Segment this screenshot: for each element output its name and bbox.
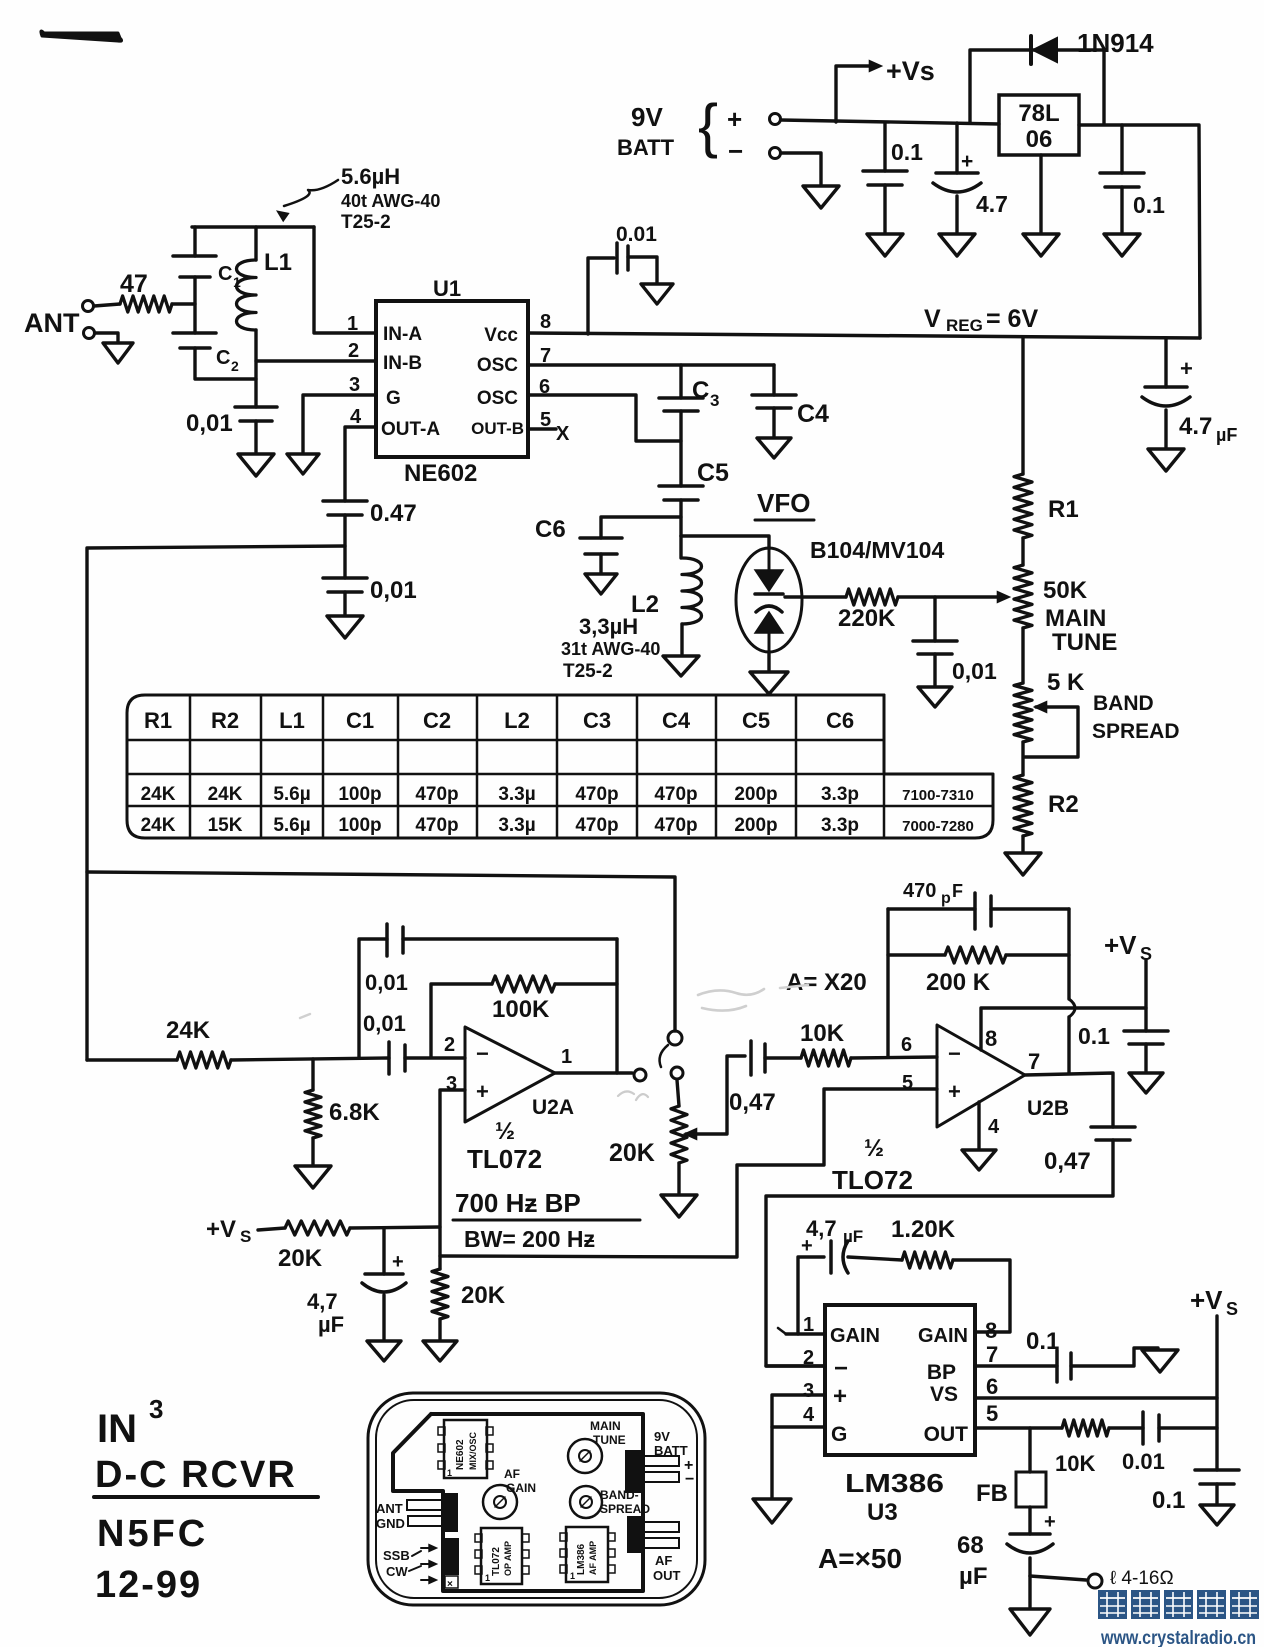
svg-text:½: ½ <box>495 1118 515 1145</box>
resistor 10K input <box>801 1050 851 1066</box>
wire pin3 pin4 ground <box>772 1395 825 1497</box>
svg-text:BW= 200 Hƶ: BW= 200 Hƶ <box>464 1226 595 1252</box>
svg-text:4,7: 4,7 <box>307 1289 338 1314</box>
svg-text:C: C <box>216 347 230 369</box>
svg-text:5: 5 <box>902 1072 913 1094</box>
svg-text:{: { <box>698 92 718 159</box>
diode 1N914 across regulator <box>970 50 1104 124</box>
wire pin6 VS to +Vs <box>975 1396 1217 1399</box>
svg-text:8: 8 <box>985 1026 997 1051</box>
potentiometer 20K AF gain <box>677 1080 679 1106</box>
svg-text:OUT-B: OUT-B <box>471 419 524 438</box>
svg-text:470p: 470p <box>654 784 697 805</box>
svg-text:L1: L1 <box>279 708 305 733</box>
svg-text:U1: U1 <box>433 276 461 301</box>
scan artifact mark <box>41 31 122 41</box>
svg-text:4.7: 4.7 <box>1179 413 1212 440</box>
wire Vcc to R1 <box>1021 338 1024 474</box>
svg-text:+V: +V <box>1104 930 1137 960</box>
ground L2 <box>663 656 699 676</box>
svg-text:5.6µ: 5.6µ <box>273 784 310 805</box>
svg-text:MAIN: MAIN <box>590 1419 621 1433</box>
op-amp U2B triangle <box>937 1025 1025 1127</box>
wire to output jack <box>1030 1576 1086 1580</box>
ground 0.01 <box>327 616 363 638</box>
svg-text:+Vs: +Vs <box>886 56 935 86</box>
capacitor 68uF output electrolytic <box>1028 1507 1031 1534</box>
capacitor 0.1 U2B bypass <box>1124 1029 1168 1033</box>
svg-text:µF: µF <box>318 1312 344 1337</box>
wire pin8 to +Vs <box>981 1008 1146 1050</box>
svg-text:3: 3 <box>710 391 719 410</box>
svg-text:µF: µF <box>1216 425 1237 445</box>
svg-text:3.3µ: 3.3µ <box>498 815 535 836</box>
pcb AF OUT connector <box>628 1517 642 1552</box>
svg-text:+: + <box>948 1079 961 1104</box>
svg-text:U2B: U2B <box>1027 1097 1069 1120</box>
svg-text:G: G <box>831 1423 847 1446</box>
svg-text:AF: AF <box>504 1467 520 1481</box>
svg-text:+V: +V <box>1190 1285 1223 1315</box>
svg-text:7: 7 <box>986 1342 998 1367</box>
svg-text:4: 4 <box>803 1404 815 1426</box>
wire C2 to tank bottom <box>195 348 256 379</box>
svg-text:IN: IN <box>97 1407 137 1451</box>
svg-text:100K: 100K <box>492 996 550 1023</box>
svg-text:6: 6 <box>901 1034 912 1056</box>
ground 6.8K <box>295 1166 331 1188</box>
svg-text:7100-7310: 7100-7310 <box>902 787 974 804</box>
svg-text:8: 8 <box>540 311 551 333</box>
svg-text:C6: C6 <box>535 516 566 543</box>
svg-text:100p: 100p <box>338 784 381 805</box>
svg-text:OSC: OSC <box>477 355 518 376</box>
svg-text:5.6µH: 5.6µH <box>341 164 400 189</box>
capacitor 0.01 feedback top <box>359 939 387 1057</box>
svg-text:5: 5 <box>986 1401 998 1426</box>
svg-text:0.1: 0.1 <box>891 139 923 165</box>
svg-text:−: − <box>728 136 743 166</box>
svg-text:31t AWG-40: 31t AWG-40 <box>561 639 660 659</box>
svg-text:0,47: 0,47 <box>729 1089 776 1116</box>
capacitor 0.01 Vcc bypass <box>588 258 614 334</box>
battery + terminal <box>770 114 781 125</box>
svg-text:p: p <box>941 890 951 907</box>
svg-text:V: V <box>924 305 941 333</box>
resistor 10K zobel <box>1062 1420 1109 1436</box>
svg-text:0,01: 0,01 <box>370 577 417 604</box>
svg-text:T25-2: T25-2 <box>563 661 613 682</box>
capacitor C4 <box>772 365 775 395</box>
svg-text:ANT: ANT <box>376 1501 403 1516</box>
svg-text:C4: C4 <box>797 400 829 428</box>
pcb pot AF GAIN <box>483 1485 517 1519</box>
capacitor 0.1 supply <box>1195 1468 1239 1472</box>
svg-text:+: + <box>727 104 742 134</box>
wire audio feed to left rail <box>87 546 345 1060</box>
ground 0.1 output <box>1104 234 1140 256</box>
svg-text:470p: 470p <box>654 815 697 836</box>
resistor 200K feedback <box>888 953 945 956</box>
wire varactor to ground <box>767 652 770 670</box>
wire regulator output rail <box>1079 125 1200 338</box>
svg-text:C3: C3 <box>583 708 611 733</box>
svg-text:SPREAD: SPREAD <box>600 1502 650 1516</box>
ground pin7 <box>1142 1350 1178 1372</box>
capacitor 0.01 zobel <box>1109 1426 1143 1429</box>
svg-text:3.3p: 3.3p <box>821 815 859 836</box>
ground 0.01 tune <box>918 687 952 707</box>
svg-text:µF: µF <box>959 1563 988 1590</box>
svg-text:470p: 470p <box>575 815 618 836</box>
svg-text:C2: C2 <box>423 708 451 733</box>
svg-text:TUNE: TUNE <box>1052 629 1117 656</box>
svg-text:68: 68 <box>957 1532 984 1559</box>
ground 20K bias <box>423 1341 457 1361</box>
faint pencil scribbles <box>698 989 764 1011</box>
svg-text:TLO72: TLO72 <box>832 1165 913 1195</box>
resistor 24K input <box>87 1058 177 1061</box>
capacitor 4.7uF rail electrolytic <box>1164 338 1167 387</box>
svg-text:TL072: TL072 <box>491 1547 502 1576</box>
svg-text:TL072: TL072 <box>467 1144 542 1174</box>
svg-text:+: + <box>1044 1511 1056 1533</box>
svg-text:+V: +V <box>206 1216 236 1243</box>
svg-text:47: 47 <box>120 270 148 298</box>
svg-text:VFO: VFO <box>757 488 810 518</box>
svg-text:20K: 20K <box>609 1139 655 1167</box>
svg-text:VS: VS <box>930 1383 958 1406</box>
svg-text:CW: CW <box>386 1564 408 1579</box>
svg-text:−: − <box>948 1041 961 1066</box>
resistor 20K bias lower <box>432 1269 448 1319</box>
ground 4.7uF bias <box>367 1341 401 1361</box>
svg-text:220K: 220K <box>838 605 896 632</box>
svg-text:1N914: 1N914 <box>1077 28 1154 58</box>
resistor 47 <box>94 304 120 306</box>
svg-text:40t AWG-40: 40t AWG-40 <box>341 191 440 211</box>
svg-text:+: + <box>833 1383 847 1410</box>
potentiometer 5K BAND SPREAD <box>1014 683 1032 742</box>
svg-text:24K: 24K <box>141 815 176 836</box>
svg-text:100p: 100p <box>338 815 381 836</box>
svg-text:C4: C4 <box>662 708 691 733</box>
svg-text:7000-7280: 7000-7280 <box>902 818 974 835</box>
op-amp U1 NE602 mixer box <box>376 301 528 457</box>
svg-text:www.crystalradio.cn: www.crystalradio.cn <box>1100 1628 1256 1647</box>
svg-text:GAIN: GAIN <box>918 1325 968 1347</box>
svg-text:5.6µ: 5.6µ <box>273 815 310 836</box>
svg-text:SSB: SSB <box>383 1548 410 1563</box>
svg-text:24K: 24K <box>208 784 243 805</box>
svg-text:GAIN: GAIN <box>506 1481 536 1495</box>
op-amp U2A triangle <box>465 1027 555 1122</box>
wire battery+ to regulator input rail <box>781 120 999 124</box>
wire C1-C2 junction <box>193 277 196 333</box>
resistor 220K <box>785 595 846 598</box>
svg-text:6.8K: 6.8K <box>329 1099 380 1126</box>
svg-text:06: 06 <box>1026 126 1053 153</box>
svg-text:MAIN: MAIN <box>1045 605 1106 632</box>
svg-text:OUT: OUT <box>924 1423 969 1446</box>
pcb SSB CW switch <box>445 1539 458 1574</box>
wire Vcc 6V rail <box>528 333 1200 338</box>
svg-text:G: G <box>386 388 401 409</box>
wire feedback junction <box>886 909 889 1057</box>
svg-text:20K: 20K <box>278 1245 323 1272</box>
svg-text:AF AMP: AF AMP <box>588 1541 598 1575</box>
pcb chip LM386 <box>566 1527 608 1582</box>
svg-text:×: × <box>447 1579 453 1590</box>
pcb battery connector <box>626 1451 642 1492</box>
svg-text:1.20K: 1.20K <box>891 1216 956 1243</box>
svg-text:GND: GND <box>376 1516 405 1531</box>
svg-text:R1: R1 <box>1048 496 1079 523</box>
svg-text:5 K: 5 K <box>1047 669 1085 696</box>
svg-text:+: + <box>961 150 973 173</box>
svg-text:0,01: 0,01 <box>365 970 408 995</box>
component value table <box>127 695 993 838</box>
svg-text:D-C RCVR: D-C RCVR <box>95 1454 297 1496</box>
svg-text:MIX/OSC: MIX/OSC <box>468 1431 478 1470</box>
svg-text:NE602: NE602 <box>455 1439 466 1470</box>
ground 0.1 input <box>867 234 903 256</box>
svg-text:S: S <box>1226 1299 1238 1319</box>
svg-text:1: 1 <box>447 1468 452 1478</box>
ground regulator <box>1023 234 1059 256</box>
svg-text:15K: 15K <box>208 815 243 836</box>
svg-text:U3: U3 <box>867 1499 898 1526</box>
varactor B104/MV104 <box>736 548 802 652</box>
svg-text:FB: FB <box>976 1480 1008 1507</box>
ground C4 <box>757 438 791 458</box>
wire to C6 <box>601 517 681 538</box>
svg-text:REG: REG <box>946 316 983 335</box>
capacitor 0.1 input bypass <box>883 123 886 171</box>
capacitor 0.1 bypass pin7 <box>975 1364 1057 1367</box>
svg-text:2: 2 <box>231 358 239 374</box>
wire pin5 OUT <box>975 1426 1062 1429</box>
svg-text:0.1: 0.1 <box>1133 192 1165 218</box>
ground 20K pot <box>661 1195 697 1217</box>
svg-text:3: 3 <box>803 1380 814 1402</box>
wire pin3 to bias <box>440 1090 465 1269</box>
wire pin2 input <box>766 1364 825 1367</box>
svg-text:NE602: NE602 <box>404 460 477 487</box>
wire U2A output <box>555 1071 632 1074</box>
pcb pot MAIN TUNE <box>568 1439 602 1473</box>
svg-text:4: 4 <box>350 406 362 428</box>
svg-text:0,01: 0,01 <box>186 410 233 437</box>
capacitor 0.47 coupling <box>323 499 367 503</box>
watermark crystalradio characters <box>1098 1590 1127 1619</box>
svg-text:1: 1 <box>485 1573 490 1583</box>
op-amp U3 LM386 box <box>825 1305 975 1455</box>
svg-text:AF: AF <box>655 1553 672 1568</box>
capacitor 0.01 series input <box>387 1042 391 1074</box>
svg-text:3: 3 <box>149 1394 163 1424</box>
svg-text:BP: BP <box>927 1361 956 1384</box>
capacitor 0.47 series <box>749 1041 753 1075</box>
svg-text:C5: C5 <box>742 708 770 733</box>
svg-text:X: X <box>556 423 570 445</box>
svg-text:200p: 200p <box>734 784 777 805</box>
wire regulator ground pin <box>1039 155 1042 232</box>
capacitor 4.7 electrolytic input <box>955 123 958 173</box>
capacitor C3 <box>679 365 682 398</box>
battery - terminal <box>770 148 781 159</box>
inductor L1 <box>192 225 314 228</box>
wire bias to U2B pin5 <box>440 1089 937 1257</box>
ground 0.01 Vcc <box>641 284 673 304</box>
switch SSB/CW circles <box>668 1031 682 1045</box>
svg-text:T25-2: T25-2 <box>341 212 391 233</box>
wire output return to LM386 <box>766 1140 1113 1366</box>
svg-text:C5: C5 <box>697 459 729 487</box>
wire +Vs tap with arrow <box>836 66 870 122</box>
capacitor 0.01 tank bypass <box>235 405 277 409</box>
svg-text:0.01: 0.01 <box>616 223 657 246</box>
capacitor C2 <box>173 331 216 335</box>
svg-text:0,01: 0,01 <box>363 1011 406 1036</box>
svg-text:4.7: 4.7 <box>976 191 1008 217</box>
svg-text:U2A: U2A <box>532 1096 574 1119</box>
svg-text:R2: R2 <box>1048 791 1079 818</box>
resistor R1 <box>1014 474 1032 538</box>
wire 20K wiper to 0.47 <box>684 1128 697 1139</box>
wire pin1 gain <box>786 1332 825 1335</box>
ground 0.01 tank <box>238 454 274 476</box>
svg-text:A=×50: A=×50 <box>818 1543 902 1574</box>
capacitor 0.01 bypass <box>323 576 367 580</box>
svg-text:IN-B: IN-B <box>383 353 422 374</box>
svg-text:3.3µ: 3.3µ <box>498 784 535 805</box>
svg-text:ℓ 4-16Ω: ℓ 4-16Ω <box>1110 1568 1174 1589</box>
svg-text:OUT: OUT <box>653 1568 681 1583</box>
capacitor 470pF feedback <box>888 907 975 910</box>
svg-text:12-99: 12-99 <box>95 1564 202 1606</box>
svg-text:= 6V: = 6V <box>986 305 1038 333</box>
svg-text:GAIN: GAIN <box>830 1325 880 1347</box>
svg-text:C6: C6 <box>826 708 854 733</box>
resistor 6.8K to ground <box>311 1059 314 1090</box>
pcb pot BAND SPREAD <box>570 1486 602 1518</box>
svg-text:0.1: 0.1 <box>1026 1328 1059 1355</box>
svg-text:OUT-A: OUT-A <box>381 419 440 440</box>
svg-text:9V: 9V <box>654 1429 670 1444</box>
capacitor 0.47 output <box>1091 1125 1135 1129</box>
svg-text:0,01: 0,01 <box>952 658 997 684</box>
svg-text:F: F <box>952 881 963 901</box>
resistor R2 <box>1014 775 1032 836</box>
resistor 100K feedback <box>431 984 492 1057</box>
svg-text:200 K: 200 K <box>926 969 991 996</box>
svg-text:20K: 20K <box>461 1282 506 1309</box>
ferrite bead FB <box>1028 1428 1031 1472</box>
wire 50K to 5K <box>1021 628 1024 683</box>
svg-text:OP AMP: OP AMP <box>503 1541 513 1576</box>
svg-text:½: ½ <box>864 1135 884 1162</box>
svg-text:C: C <box>692 377 709 404</box>
svg-text:−: − <box>685 1471 694 1488</box>
svg-text:ANT: ANT <box>24 308 80 338</box>
ground C6 <box>585 574 617 594</box>
svg-text:BAND: BAND <box>1093 692 1154 715</box>
svg-text:24K: 24K <box>141 784 176 805</box>
svg-text:Vcc: Vcc <box>484 325 518 346</box>
wire 220K to 50K wiper <box>898 595 1000 598</box>
svg-text:BATT: BATT <box>617 135 675 160</box>
svg-text:24K: 24K <box>166 1017 211 1044</box>
svg-text:B104/MV104: B104/MV104 <box>810 537 944 563</box>
pcb layout outer case <box>368 1393 705 1605</box>
svg-text:+: + <box>392 1251 404 1273</box>
svg-text:C1: C1 <box>346 708 374 733</box>
gain loop 4.7uF 1.20K <box>798 1257 824 1334</box>
capacitor 0.1 output bypass <box>1120 125 1123 173</box>
annotation arrow 5.6uH <box>284 180 338 206</box>
svg-text:BATT: BATT <box>654 1443 688 1458</box>
wire ANT ground <box>95 333 118 341</box>
svg-text:4: 4 <box>988 1116 1000 1138</box>
svg-text:TUNE: TUNE <box>593 1433 626 1447</box>
svg-text:LM386: LM386 <box>576 1543 587 1575</box>
svg-text:78L: 78L <box>1018 100 1059 127</box>
ground 4.7 <box>939 234 975 256</box>
svg-text:470p: 470p <box>575 784 618 805</box>
svg-text:R1: R1 <box>144 708 172 733</box>
svg-text:L1: L1 <box>264 249 292 276</box>
pcb chip TL072 <box>481 1528 522 1584</box>
wire to varactor <box>681 536 769 549</box>
svg-text:10K: 10K <box>800 1020 845 1047</box>
svg-text:3: 3 <box>349 374 360 396</box>
svg-text:+: + <box>801 1235 813 1257</box>
pcb chip NE602 <box>444 1420 487 1478</box>
ground 0.1 U2B <box>1129 1073 1163 1093</box>
svg-text:3.3p: 3.3p <box>821 784 859 805</box>
svg-text:−: − <box>834 1355 848 1382</box>
svg-text:10K: 10K <box>1055 1451 1095 1476</box>
svg-text:0.47: 0.47 <box>370 500 417 527</box>
svg-text:N5FC: N5FC <box>97 1513 208 1555</box>
svg-text:700 Hƶ BP: 700 Hƶ BP <box>455 1188 581 1218</box>
svg-text:7: 7 <box>1028 1049 1040 1074</box>
wire SSB bypass to switch <box>87 872 675 1031</box>
capacitor 4.7uF bias electrolytic <box>382 1228 385 1274</box>
pcb ANT GND connector <box>443 1494 457 1531</box>
svg-text:470: 470 <box>903 880 936 902</box>
ground output <box>1028 1576 1031 1607</box>
wire feedback right vertical with hop <box>1067 909 1070 999</box>
svg-text:L2: L2 <box>504 708 530 733</box>
pcb board outline <box>393 1414 643 1591</box>
svg-text:200p: 200p <box>734 815 777 836</box>
svg-text:C: C <box>218 263 232 285</box>
svg-text:6: 6 <box>986 1374 998 1399</box>
svg-text:0.1: 0.1 <box>1152 1487 1185 1514</box>
svg-text:2: 2 <box>444 1034 455 1056</box>
svg-text:+: + <box>1180 356 1193 381</box>
svg-text:0,47: 0,47 <box>1044 1148 1091 1175</box>
svg-text:1: 1 <box>561 1046 572 1068</box>
svg-text:−: − <box>476 1041 489 1066</box>
svg-text:470p: 470p <box>415 784 458 805</box>
svg-text:SPREAD: SPREAD <box>1092 720 1180 743</box>
svg-text:2: 2 <box>348 340 359 362</box>
wire feedback vertical <box>615 939 618 1073</box>
regulator U 78L06 <box>999 95 1079 155</box>
